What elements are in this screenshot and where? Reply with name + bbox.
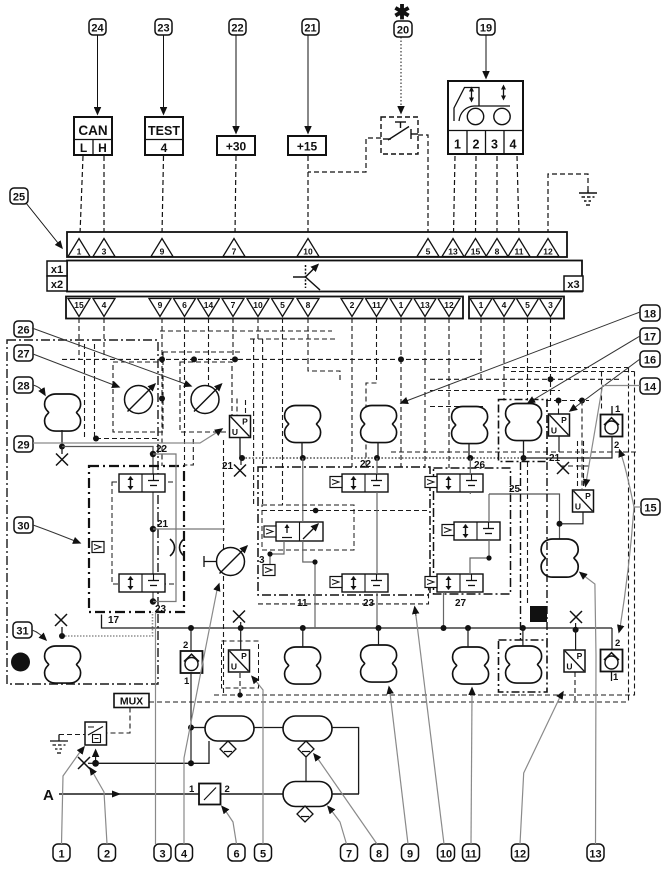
callout 18 — [640, 305, 660, 321]
junction — [579, 398, 585, 404]
pressure sensor 16 (U/P) — [549, 414, 570, 436]
leader 6 — [225, 810, 237, 844]
pipe to UPb sensor — [240, 628, 242, 650]
svg-text:5: 5 — [525, 300, 530, 310]
callout 10 — [438, 844, 455, 861]
wire branch into left box — [84, 344, 86, 438]
junction — [486, 555, 491, 560]
junction — [300, 455, 306, 461]
junction — [239, 455, 245, 461]
pilot valve 22 — [330, 477, 342, 488]
svg-text:3: 3 — [491, 138, 498, 152]
junction — [188, 760, 194, 766]
svg-text:19: 19 — [480, 23, 492, 35]
svg-text:5: 5 — [280, 300, 285, 310]
junction — [312, 559, 317, 564]
leader 11 — [471, 694, 472, 844]
junction — [520, 625, 526, 631]
svg-text:12: 12 — [444, 300, 454, 310]
vent stub — [575, 623, 577, 631]
callout 4 — [176, 844, 193, 861]
svg-text:x1: x1 — [51, 264, 63, 276]
junction — [59, 444, 65, 450]
valve block 17 dash-dot frame — [89, 466, 184, 612]
wire sensor 26 link — [208, 359, 210, 399]
dashed box around height sensor 27 — [113, 362, 163, 432]
svg-text:11: 11 — [297, 598, 308, 609]
wheel — [494, 108, 510, 124]
pipe drop — [378, 628, 380, 645]
junction 21 — [150, 526, 156, 532]
callout 12 — [512, 844, 529, 861]
wire UPb trunk down — [223, 440, 225, 694]
dashed frame around 3/2 valve — [262, 505, 354, 550]
pipe drop — [522, 628, 524, 646]
svg-text:15: 15 — [471, 247, 481, 257]
callout 21 — [302, 19, 319, 35]
wire bus to solenoid block — [96, 438, 157, 440]
CAN connector box — [74, 117, 112, 155]
pressure sensor bottom-left (U/P) — [229, 650, 250, 672]
wire sensors upper right b — [583, 441, 585, 489]
air tank 3 — [283, 782, 332, 807]
pipe bellows drop — [468, 443, 470, 458]
check valve under tank2 — [298, 741, 314, 757]
callout 20 — [394, 21, 412, 37]
height sensor 26 (gauge) — [191, 384, 222, 414]
junction — [521, 455, 527, 461]
pipe to UP4 — [575, 630, 577, 650]
leader 20 dotted — [400, 37, 402, 113]
svg-text:3: 3 — [259, 555, 265, 566]
leader 23 — [163, 35, 165, 114]
PLACEHOLDER_PNEU — [43, 694, 359, 823]
bus y339 — [250, 338, 338, 340]
3/2 solenoid valve — [276, 522, 323, 541]
pipe bellows drop — [301, 442, 303, 458]
svg-text:+30: +30 — [226, 140, 247, 154]
callout 28 — [14, 377, 33, 393]
tank2 right pipe down — [332, 728, 359, 795]
svg-text:2: 2 — [183, 640, 188, 651]
callout 1 — [53, 844, 70, 861]
svg-text:31: 31 — [16, 626, 28, 638]
leader 1 — [62, 752, 81, 844]
svg-text:18: 18 — [644, 309, 656, 321]
svg-text:21: 21 — [304, 23, 316, 35]
wire pin x2-6 down — [184, 318, 186, 359]
solenoid valve 27 — [437, 574, 483, 592]
svg-text:25: 25 — [13, 192, 25, 204]
solenoid valve 22 (central) — [342, 474, 388, 492]
svg-text:13: 13 — [420, 300, 430, 310]
grey pipe bellows31 to block — [62, 612, 153, 636]
wire pin x3-1 down — [400, 318, 402, 359]
svg-text:10: 10 — [253, 300, 263, 310]
leader 29 — [33, 431, 219, 443]
solenoid valve 26 — [437, 474, 483, 492]
vent X — [234, 465, 246, 477]
leader 16 — [570, 359, 640, 411]
solenoid valve upper (block 17) — [119, 474, 165, 492]
port 1 line bottom — [611, 671, 613, 681]
junction — [232, 356, 238, 362]
pipe gallery to overflow valve 2 — [611, 628, 613, 650]
svg-text:13: 13 — [448, 247, 458, 257]
relay box 1 — [85, 722, 107, 745]
lift axle channel dash-dot right — [546, 462, 548, 640]
svg-text:1: 1 — [58, 849, 64, 861]
leader 18 — [401, 312, 640, 403]
wire x3 pin5 down — [527, 318, 529, 401]
wire drop to overflow valve 1 — [601, 372, 603, 411]
svg-text:23: 23 — [363, 598, 375, 609]
lift axle channel dash-dot left — [520, 462, 522, 640]
wheel — [467, 108, 483, 124]
callout 3 — [154, 844, 171, 861]
wire sensor 27 down to valve block 17 — [161, 399, 163, 467]
junction — [93, 436, 99, 442]
port 1 line — [611, 406, 613, 415]
check valve under tank1 — [220, 741, 236, 757]
pipe ring valve top — [190, 628, 192, 651]
callout 29 — [14, 436, 33, 452]
vent X — [55, 614, 67, 626]
junction — [376, 625, 382, 631]
junction — [238, 625, 244, 631]
svg-text:15: 15 — [644, 503, 656, 515]
up-down arrow — [503, 88, 505, 97]
wire pin x2-4 down — [103, 318, 105, 359]
overflow valve top right — [601, 415, 623, 437]
leader 15 up — [621, 454, 641, 507]
air spring bellows front-left — [285, 406, 321, 443]
supply line to relay — [96, 741, 209, 763]
leader 7 — [331, 810, 347, 844]
callout 23 — [155, 19, 172, 35]
leader 30 — [33, 525, 80, 543]
wire pin x2-9 down to height sensor 27 — [161, 318, 163, 399]
pipe 25 to lift bellows — [489, 494, 560, 539]
overflow valve left — [181, 651, 203, 673]
stub X — [240, 622, 242, 628]
junction — [59, 633, 65, 639]
svg-text:3: 3 — [548, 300, 553, 310]
ECU mid band — [67, 261, 582, 292]
pipe diamond2 to tank3 — [305, 757, 307, 781]
ECU connector strip 25 : top band — [67, 232, 567, 257]
pipe to valve block 17 — [62, 447, 153, 602]
pipe block17 outlet down — [102, 615, 613, 629]
truck cab — [454, 88, 510, 122]
central valve block dash-dot frame — [258, 467, 430, 595]
arrow into relay — [95, 750, 97, 763]
pipe drop — [302, 628, 304, 647]
callout 30 — [14, 517, 33, 533]
wire pin x3-2 down — [351, 318, 353, 359]
svg-text:9: 9 — [160, 247, 165, 257]
wire pin x3-12 down — [448, 318, 450, 360]
svg-text:5: 5 — [426, 247, 431, 257]
switch S dashed box — [381, 117, 418, 154]
svg-text:22: 22 — [360, 459, 372, 470]
wire to pressure sensor 29 b — [245, 400, 247, 415]
svg-text:11: 11 — [372, 300, 381, 310]
wire pin x3-12 step — [448, 360, 450, 468]
wire pin x3-13 to valve 26 — [424, 360, 426, 468]
callout 17 — [640, 328, 660, 344]
ECU lower band right (x3) — [469, 297, 564, 319]
air spring bellows lift-axle upper — [506, 404, 542, 441]
wire drop to sensor 16 — [558, 401, 560, 415]
wire pin x3-11 down — [376, 318, 378, 359]
top pins (x1) — [68, 239, 559, 257]
leader 2 — [92, 771, 107, 844]
flow arrow on A line — [112, 791, 121, 798]
svg-text:21: 21 — [157, 519, 169, 530]
svg-text:MUX: MUX — [120, 696, 143, 708]
wire bus y702 — [149, 701, 627, 703]
svg-text:27: 27 — [455, 598, 467, 609]
height sensor 27 (gauge) — [125, 384, 156, 414]
feed pipe to 3/2 valve — [302, 458, 304, 522]
svg-text:4: 4 — [161, 141, 168, 155]
block 17 inner dashed frame — [112, 482, 176, 584]
svg-text:4: 4 — [181, 849, 188, 861]
pilot valve left — [92, 542, 104, 553]
solenoid valve 23 (central) — [342, 574, 388, 592]
junction — [556, 398, 562, 404]
junction — [465, 625, 471, 631]
dashed frame around sensor — [222, 641, 259, 688]
wire pin x2-7 down — [232, 318, 234, 359]
callout 6 — [228, 844, 245, 861]
svg-text:4: 4 — [502, 300, 507, 310]
svg-text:9: 9 — [407, 849, 413, 861]
svg-text:L: L — [80, 141, 87, 155]
wire to pressure sensor 29 — [236, 399, 238, 416]
dashed wires CAN/TEST/+30 down to pins — [80, 156, 83, 234]
svg-text:A: A — [43, 787, 54, 804]
pipe ring valve bottom to supply — [190, 672, 192, 763]
svg-text:2: 2 — [104, 849, 110, 861]
junction — [191, 356, 197, 362]
leader 24 — [97, 35, 99, 114]
svg-text:1: 1 — [399, 300, 404, 310]
solenoid valve mid right — [454, 522, 500, 540]
vent X — [570, 611, 582, 623]
filter box — [199, 784, 221, 805]
bottom pins (x2 and x3) — [68, 299, 562, 317]
up-down arrow — [471, 90, 473, 99]
pipe bellows28 down — [61, 430, 63, 446]
pressure sensor 14 (U/P) — [573, 490, 594, 512]
air spring bellows 28 — [45, 394, 81, 431]
svg-text:1: 1 — [615, 404, 621, 415]
lift axle dash-dot box upper — [499, 400, 548, 462]
junction — [557, 521, 563, 527]
wire cascade step — [308, 359, 340, 383]
pipe sensor16 down — [558, 436, 560, 452]
junction — [441, 625, 447, 631]
connector x1 label box — [47, 261, 67, 276]
wire pin x3-13 down — [424, 318, 426, 360]
dashed wires truck box to pins — [454, 156, 456, 234]
junction — [237, 692, 242, 697]
leader 8 — [318, 759, 377, 844]
pipe bellows drop — [377, 442, 379, 458]
wire x3 pin1 down — [480, 318, 482, 379]
pipe overflow valve to gallery — [524, 437, 613, 459]
junction — [548, 376, 554, 382]
svg-text:TEST: TEST — [148, 124, 180, 138]
pipe bellows drop — [523, 440, 525, 458]
leader 5 — [255, 680, 263, 844]
right valve block dash-dot frame — [434, 468, 511, 594]
tank1 left pipe — [191, 727, 205, 729]
pipe through valves 22/23 — [376, 458, 378, 628]
wire switch to +15 node (dashed) — [308, 138, 381, 172]
svg-text:CAN: CAN — [78, 123, 107, 138]
chassis ground top right — [579, 190, 597, 205]
wire pin x2-5 down — [282, 318, 284, 359]
svg-text:6: 6 — [182, 300, 187, 310]
wire lift axle box drop — [527, 462, 529, 606]
leader 27 — [33, 354, 119, 387]
svg-text:8: 8 — [495, 247, 500, 257]
wire right column down A — [628, 368, 630, 703]
svg-text:+15: +15 — [297, 140, 318, 154]
air spring bellows rear-left — [452, 407, 488, 444]
callout 25 — [10, 188, 28, 204]
pilot of 3/2 valve — [264, 526, 276, 537]
svg-text:1: 1 — [613, 672, 619, 683]
air spring bellows front-right — [361, 406, 397, 443]
leader 19 — [485, 35, 487, 78]
svg-text:22: 22 — [156, 444, 168, 455]
wire UPb sensor down — [239, 673, 241, 695]
callout 16 — [640, 351, 660, 367]
svg-text:13: 13 — [589, 849, 601, 861]
leader 31 — [32, 630, 46, 640]
remote control unit box (truck pictogram) — [448, 81, 523, 154]
svg-text:x2: x2 — [51, 279, 63, 291]
svg-text:12: 12 — [543, 247, 553, 257]
vent stub — [61, 627, 63, 636]
wire bus y466 short — [560, 465, 590, 467]
callout 7 — [341, 844, 358, 861]
junction — [467, 455, 473, 461]
junction — [374, 455, 380, 461]
overflow valve bottom right — [601, 650, 623, 672]
leader 15 down — [620, 507, 634, 628]
callout 13 — [587, 844, 604, 861]
svg-text:14: 14 — [644, 382, 657, 394]
wire pin x2-15 down — [78, 318, 80, 359]
wire bus y452 — [391, 451, 638, 453]
bypass pipe right of valves — [153, 454, 176, 602]
wire branch into left box 2 — [94, 344, 96, 439]
svg-text:30: 30 — [17, 521, 29, 533]
junction — [300, 625, 306, 631]
svg-text:8: 8 — [376, 849, 382, 861]
leader 13 — [583, 575, 596, 844]
svg-text:2: 2 — [615, 638, 620, 649]
wire bus y371 right — [511, 371, 635, 373]
callout 15 — [641, 499, 660, 515]
dashed box around height sensor 26 — [180, 362, 232, 432]
solenoid valve lower (block 17) — [119, 574, 165, 592]
supply box 3 — [263, 565, 275, 576]
ECAS ECU symbol — [293, 265, 320, 291]
gauge terminal tick — [204, 556, 217, 567]
leader 4 — [184, 590, 217, 844]
check valve under tank3 — [297, 806, 313, 822]
junction — [573, 627, 579, 633]
wire switch to pin 5 (dashed) — [418, 135, 428, 234]
wire pin x2-5 to central valve — [282, 359, 284, 505]
svg-text:27: 27 — [17, 349, 29, 361]
pilot valve 23 — [330, 577, 342, 588]
stub — [88, 762, 93, 764]
ground symbol left — [50, 735, 68, 754]
MUX box — [114, 694, 149, 708]
svg-text:26: 26 — [17, 325, 29, 337]
svg-text:17: 17 — [108, 615, 120, 626]
vent X — [56, 454, 68, 466]
leader 22 — [235, 35, 237, 133]
air spring bellows lift-axle lower pair top — [541, 539, 578, 577]
ECU lower band left — [66, 297, 463, 319]
svg-text:H: H — [98, 141, 107, 155]
wire pin x2-8 down — [307, 318, 309, 359]
callout 26 — [14, 321, 33, 337]
pilot valve 27 — [425, 577, 437, 588]
vent stub — [240, 458, 242, 465]
leader 25 — [26, 203, 62, 248]
main gallery pipe — [242, 457, 524, 459]
svg-text:2: 2 — [614, 440, 619, 451]
leader 3 — [155, 612, 157, 844]
pipe drop — [467, 628, 469, 647]
height sensor mid (gauge) — [217, 546, 248, 576]
+30 terminal box — [217, 136, 255, 155]
leader 10 — [416, 616, 444, 844]
svg-text:24: 24 — [91, 23, 104, 35]
svg-text:4: 4 — [510, 138, 517, 152]
wire pin x2-6 to valve block — [184, 359, 186, 466]
wire bus y367 right — [504, 367, 629, 369]
svg-text:25: 25 — [509, 484, 521, 495]
tank1 to tank2 pipe — [254, 727, 283, 729]
wire x3 pin4 down — [503, 318, 505, 401]
wire pin x2-14 down — [208, 318, 210, 359]
svg-text:7: 7 — [231, 300, 236, 310]
svg-text:15: 15 — [74, 300, 84, 310]
callout 27 — [14, 345, 33, 361]
wire pin x3-1 to valve 23 — [400, 359, 402, 467]
callout 8 — [371, 844, 388, 861]
wire bus y510 central — [262, 510, 430, 512]
wire right column down B — [520, 372, 635, 696]
callout 9 — [402, 844, 419, 861]
TEST connector box — [145, 117, 183, 155]
svg-text:2: 2 — [473, 138, 480, 152]
junction — [398, 356, 404, 362]
junction 22 — [150, 451, 156, 457]
wire bus y390 right — [430, 390, 560, 392]
choke symbol — [170, 539, 184, 556]
